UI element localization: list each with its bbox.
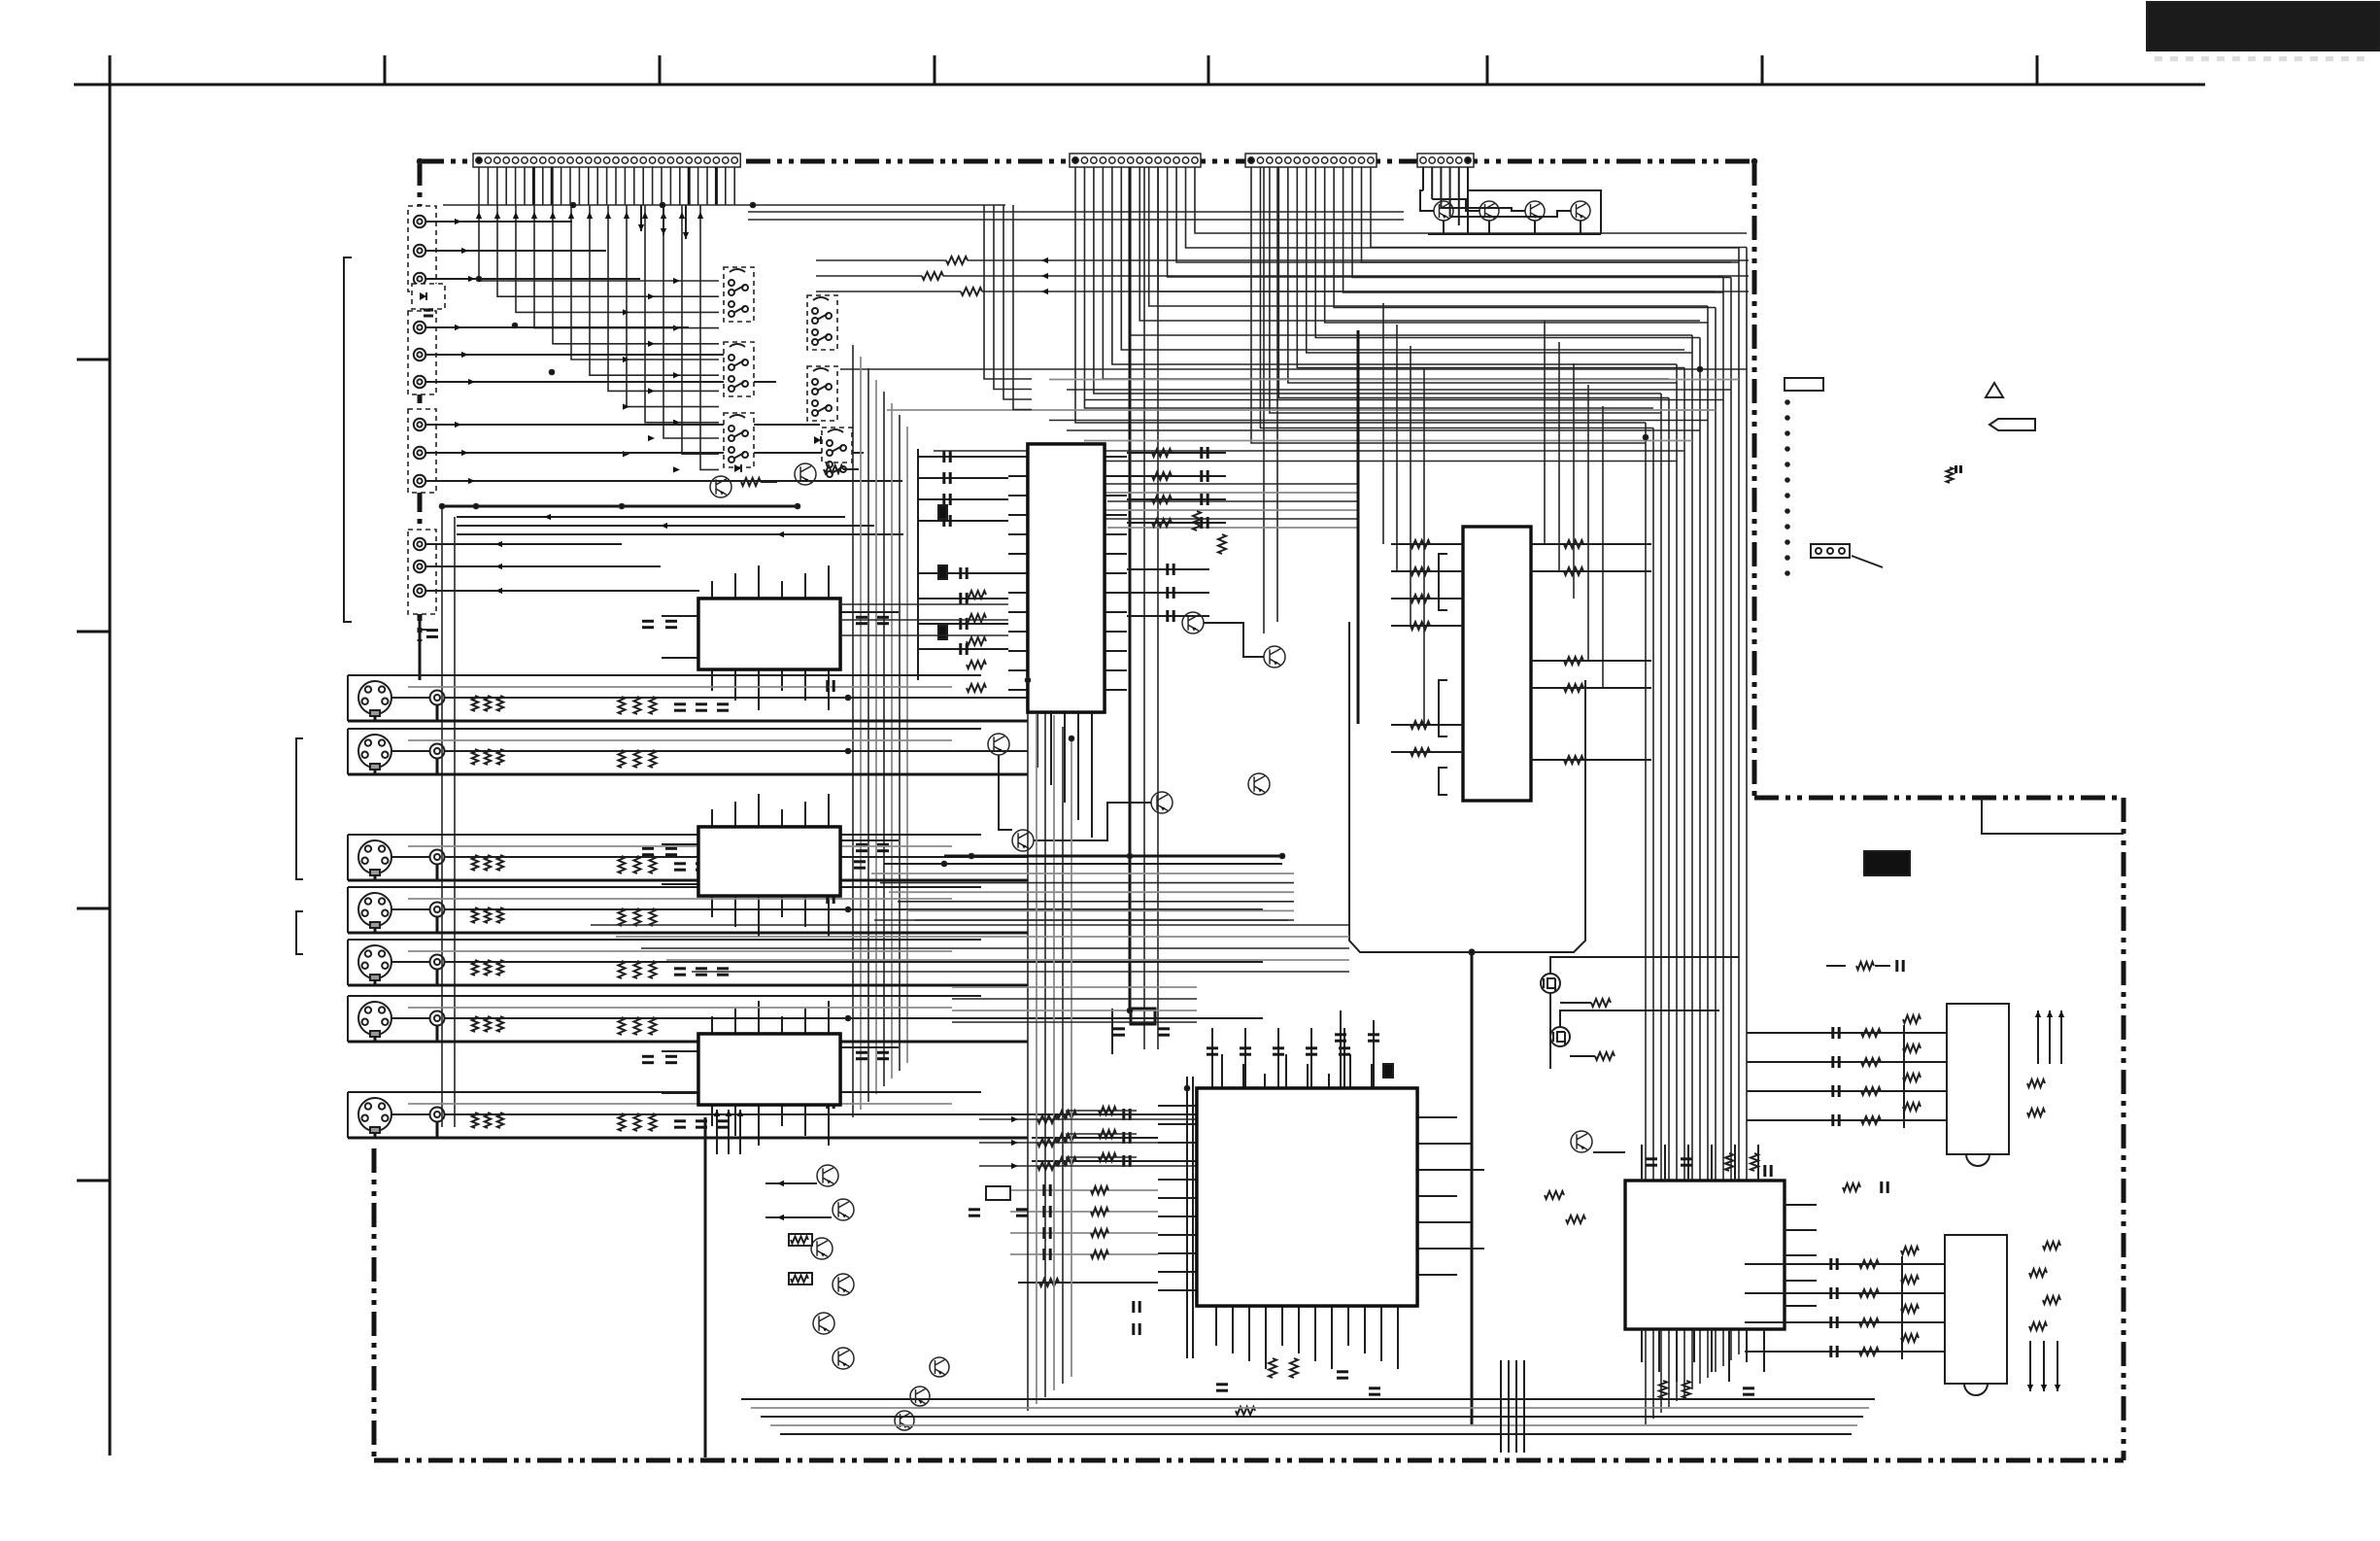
wire bottom risers [1501, 1360, 1524, 1453]
DIN connector P6 [358, 1002, 391, 1035]
transistor Q12 [1012, 830, 1034, 851]
legend bullet dots [1785, 400, 1789, 575]
wire top link bus [748, 212, 1404, 220]
wire RC return bus [816, 257, 1749, 295]
wire CN2 heavy drop [1129, 167, 1132, 1010]
RCA jack J13 [430, 903, 445, 917]
RC ladder IC9 [1745, 1247, 1945, 1359]
RC network right of IC4 [1127, 447, 1226, 622]
wire CN4 drops [1423, 167, 1468, 234]
PCB board outline (dash-dot) [374, 161, 2124, 1460]
wire CN3 long drop [1263, 167, 1265, 634]
connector J2 (dashed) [408, 311, 436, 394]
ground cap C1 [419, 614, 422, 680]
DIN connector P2 [358, 735, 391, 768]
transistor Q18 [811, 1238, 833, 1259]
wire CN1 staircase fan [476, 205, 719, 473]
transistor Q24 [895, 1411, 914, 1430]
wire return lines [457, 514, 903, 537]
wire riser arrows [714, 1110, 743, 1154]
op-amp IC1 [698, 599, 840, 669]
wire long bus B [1030, 484, 1358, 528]
transistor Q20 [813, 1313, 834, 1334]
legend arrow symbol [1989, 419, 2035, 430]
switch S4 [807, 295, 837, 350]
page frame top rule [74, 84, 2205, 86]
wire center filler [591, 604, 1349, 1022]
frame tick marks left [77, 360, 110, 1181]
diode D3 [814, 436, 821, 444]
wire center heavy bus [944, 855, 1282, 858]
wire CN1 down arrows [638, 205, 689, 239]
transistor Q8 [1264, 646, 1285, 668]
switch S2 [724, 342, 754, 396]
transistor Q7 [1182, 612, 1204, 634]
RCA jack J16 [430, 1108, 445, 1122]
transistor Q11 [1248, 773, 1270, 795]
IC5 (tall) [1463, 527, 1531, 801]
board outline notch [1982, 798, 2124, 834]
RCA jack J15 [430, 1011, 445, 1026]
diode D1 block [412, 284, 445, 309]
group bracket C [296, 911, 303, 954]
bias network Q16-Q21 [705, 1117, 832, 1457]
wire CN1 pin drops [443, 167, 1005, 205]
group bracket B [296, 738, 303, 879]
IC6 body [1197, 1088, 1417, 1306]
transistor Q19 [833, 1274, 854, 1295]
wire DIN bus verticals [1028, 680, 1071, 1411]
wire J4 inputs [436, 541, 699, 594]
switch S5 [807, 366, 837, 421]
transistor Q13 [1571, 1131, 1592, 1152]
title block (filled) [2147, 2, 2380, 51]
caps between drivers [1826, 960, 1903, 1193]
wire stem [1471, 952, 1474, 1424]
transistor Q1 [710, 476, 731, 497]
PLL filter [986, 1186, 1010, 1200]
group bracket A [344, 257, 352, 622]
capacitor C40 [854, 860, 866, 863]
wire IC9 outputs [2027, 1242, 2060, 1391]
DIN connector P5 [358, 945, 391, 978]
wire J-row outputs [436, 219, 902, 484]
title ghost text [2155, 56, 2364, 61]
IC4 (tall DSP) [1028, 444, 1105, 712]
transistor Q23 [910, 1387, 930, 1406]
RCA jack J10 [430, 691, 445, 705]
section outline (chamfered) [1349, 622, 1585, 952]
wire IC8 outputs [2027, 1010, 2064, 1116]
crystal X1 [1131, 1009, 1155, 1024]
connector CN4 [1417, 154, 1474, 167]
RC around IC7 [1545, 1152, 1771, 1398]
wire center vertical bundle [853, 345, 907, 1117]
legend warning triangle [1986, 383, 2003, 397]
diode D2 [734, 464, 741, 472]
wire Q links [999, 623, 1264, 840]
wire junction dots [418, 159, 1757, 1091]
wire DIN row harness [348, 675, 1263, 1138]
IC4 body [1028, 444, 1105, 712]
DIN connector P1 [358, 681, 391, 714]
MOSFET Q14 [1541, 974, 1560, 993]
legend component symbol [1947, 467, 1954, 483]
connector CN1 [473, 154, 740, 167]
wire CN2 staircase [1075, 167, 1747, 423]
connector J1 (dashed) [408, 206, 436, 291]
wire bottom bus [741, 1399, 1875, 1434]
wire long bus A [840, 369, 1747, 462]
IC3 body [698, 1034, 840, 1105]
connector CN2 [1070, 154, 1201, 167]
connector J4 (dashed) [408, 530, 436, 614]
transistor Q9 [988, 734, 1009, 755]
RCA jack J12 [430, 850, 445, 865]
IC9 (driver) [1945, 1235, 2007, 1384]
connector CN3 [1245, 154, 1377, 167]
IC7 (sub MCU) [1625, 1181, 1785, 1329]
wire left risers [442, 506, 455, 1127]
decoupling caps IC4 [918, 449, 1008, 692]
DIN connector P4 [358, 893, 391, 926]
IC2 body [698, 827, 840, 896]
wire right bundle verticals [1646, 248, 1747, 1425]
transistor row Q3-Q6 [1420, 190, 1601, 234]
transistor Q16 [817, 1165, 838, 1186]
transistor Q17 [833, 1199, 854, 1220]
wire CN3 staircase [1251, 167, 1747, 443]
RC rows IC6 [1010, 1109, 1158, 1335]
transistor Q22 [930, 1357, 949, 1377]
RC ladder IC8 [1747, 1015, 1947, 1128]
connector J3 (dashed) [408, 409, 436, 493]
transistor Q10 [1151, 792, 1173, 813]
page frame left rule [109, 55, 112, 1455]
op-amp IC2 [698, 827, 840, 896]
frame tick marks top [385, 55, 2037, 85]
DIN connector P7 [358, 1098, 391, 1131]
DIN connector P3 [358, 840, 391, 873]
RCA jack J14 [430, 955, 445, 970]
wire IC5 feed verticals [1383, 303, 1603, 725]
IC1 body [698, 599, 840, 669]
black ref mark [1864, 851, 1910, 875]
MOSFET Q15 [1550, 1027, 1570, 1046]
transistor Q2 [795, 463, 816, 485]
RC below IC6 [1216, 1358, 1380, 1415]
wire mosfet links [1550, 957, 1739, 1069]
wire center gray bundle [871, 873, 1294, 920]
caps above IC6 [1207, 1010, 1393, 1088]
wire arrows into IC6 [979, 1107, 1197, 1170]
wire CN1 bus drops [984, 205, 1032, 410]
IC6 (MCU) [1197, 1088, 1417, 1306]
legend 3p connector [1811, 544, 1850, 558]
op-amp IC3 [698, 1034, 840, 1105]
switch S6 [822, 428, 852, 462]
transistor Q21 [833, 1348, 854, 1369]
IC8 (driver) [1947, 1004, 2009, 1154]
wire IC6 left rail [1186, 1077, 1188, 1358]
resistor array IC5 [1358, 330, 1651, 764]
wire heavy bus [442, 505, 798, 508]
legend box [1785, 378, 1823, 391]
switch S1 [724, 267, 754, 322]
RCA jack J11 [430, 744, 445, 759]
switch S3 [724, 413, 754, 467]
